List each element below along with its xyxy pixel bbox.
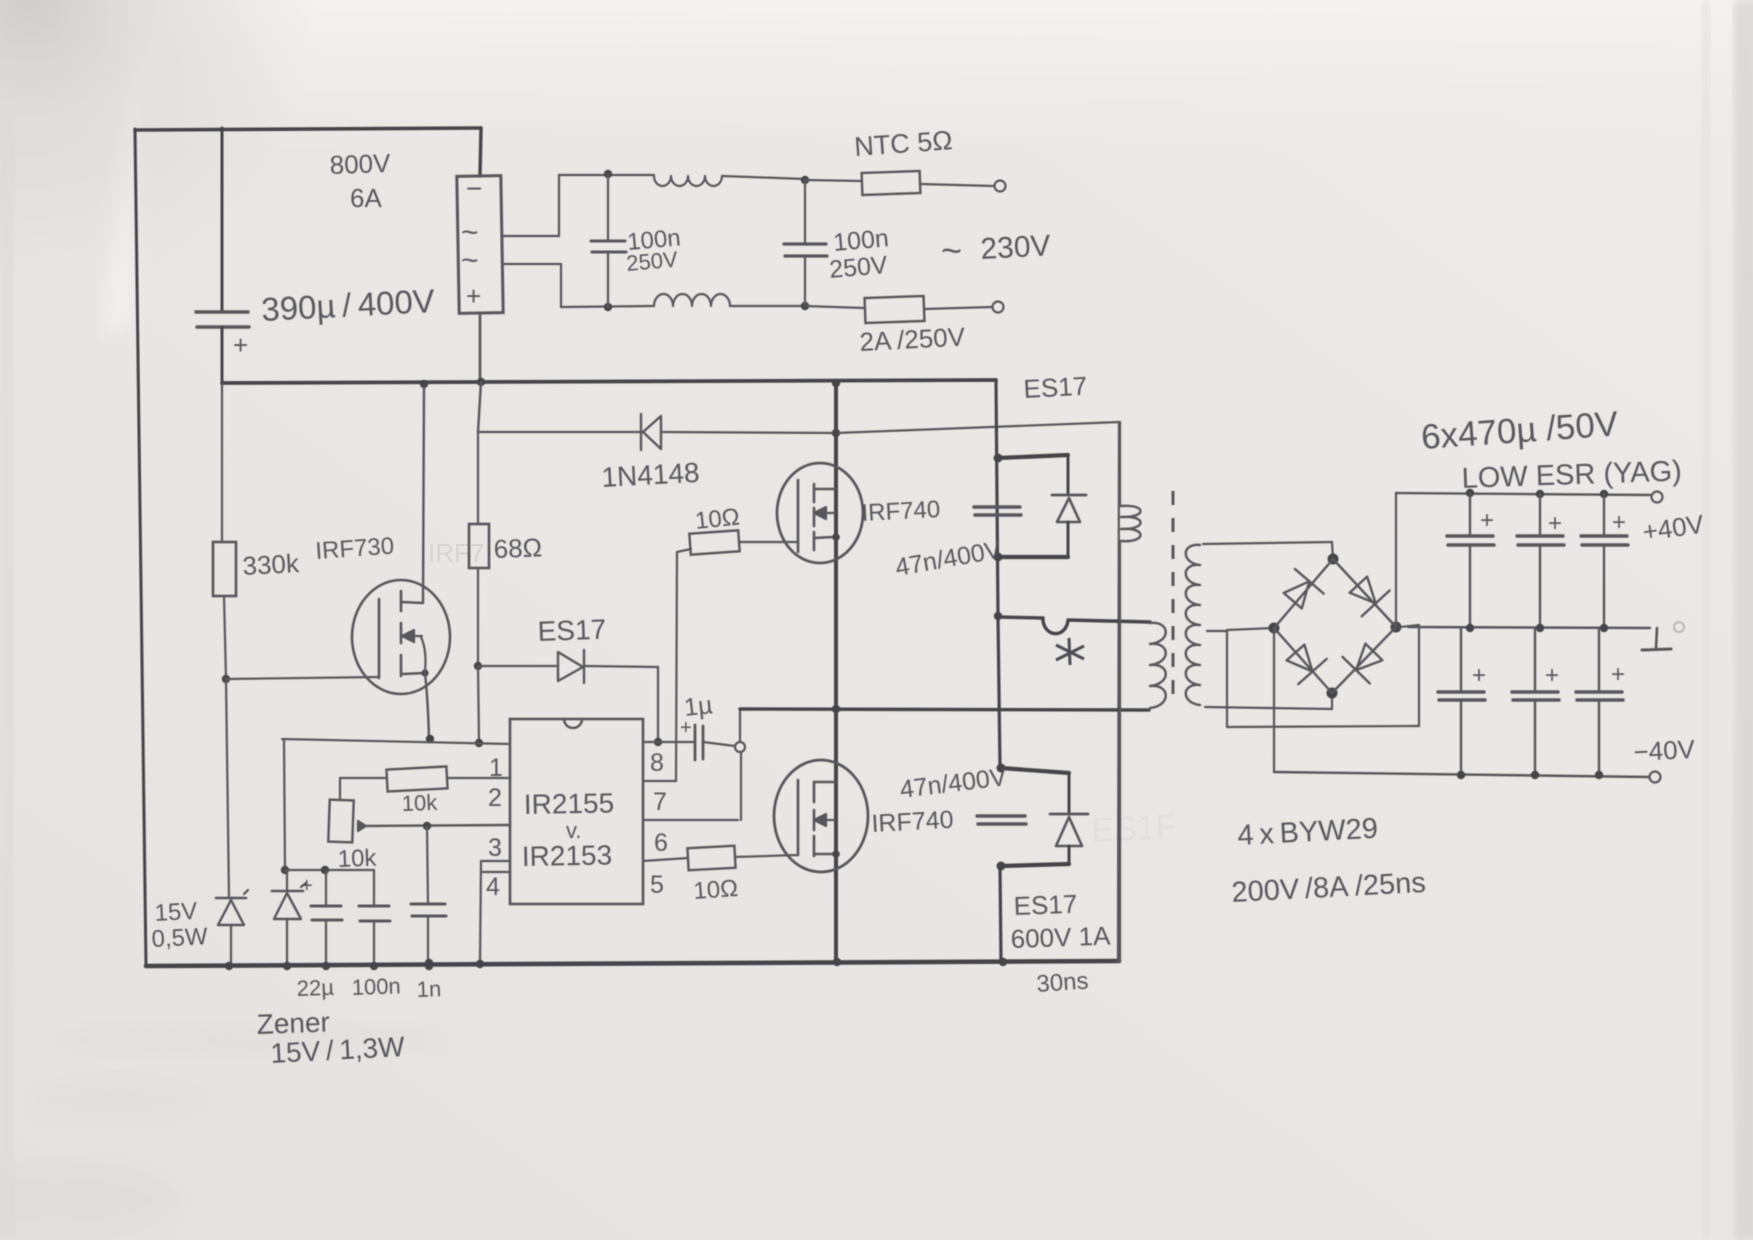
svg-text:250V: 250V <box>625 247 679 276</box>
svg-text:10Ω: 10Ω <box>694 503 741 535</box>
svg-text:+: + <box>1480 507 1494 534</box>
svg-text:6: 6 <box>654 829 668 857</box>
svg-text:0,5W: 0,5W <box>151 923 209 953</box>
svg-text:−40V: −40V <box>1633 734 1697 767</box>
svg-text:ES17: ES17 <box>1013 889 1078 921</box>
svg-text:IRF740: IRF740 <box>861 496 941 527</box>
svg-text:+: + <box>233 330 248 360</box>
svg-text:~: ~ <box>461 244 479 277</box>
svg-text:ES17: ES17 <box>537 614 607 647</box>
svg-text:4: 4 <box>486 873 500 901</box>
svg-text:3: 3 <box>488 834 502 862</box>
svg-text:600V 1A: 600V 1A <box>1010 921 1111 954</box>
svg-text:1n: 1n <box>416 976 441 1002</box>
svg-text:100n: 100n <box>351 973 401 1000</box>
svg-text:~: ~ <box>941 230 962 271</box>
svg-text:10k: 10k <box>401 790 438 816</box>
svg-text:30ns: 30ns <box>1036 967 1090 998</box>
svg-text:2A /250V: 2A /250V <box>859 321 967 357</box>
svg-text:7: 7 <box>653 788 667 816</box>
svg-text:68Ω: 68Ω <box>493 532 542 564</box>
svg-text:+: + <box>1612 509 1626 536</box>
svg-text:IR2155: IR2155 <box>524 787 615 820</box>
svg-text:15V: 15V <box>154 898 198 927</box>
svg-text:+: + <box>1611 661 1625 688</box>
svg-text:800V: 800V <box>329 148 391 180</box>
svg-text:ES1F: ES1F <box>1090 808 1177 850</box>
svg-text:230V: 230V <box>980 229 1052 266</box>
svg-text:IRF740: IRF740 <box>871 806 954 838</box>
svg-text:IRF7: IRF7 <box>428 538 484 568</box>
svg-text:250V: 250V <box>828 251 889 284</box>
svg-text:+: + <box>1545 662 1559 689</box>
svg-text:10Ω: 10Ω <box>693 875 739 905</box>
svg-text:−: − <box>466 173 482 204</box>
svg-text:8: 8 <box>650 749 664 777</box>
svg-text:ES17: ES17 <box>1023 371 1088 404</box>
svg-text:+: + <box>1548 510 1562 537</box>
svg-text:+: + <box>466 281 481 311</box>
svg-text:IRF730: IRF730 <box>315 533 395 565</box>
svg-text:1µ: 1µ <box>683 691 714 722</box>
svg-text:330k: 330k <box>242 548 301 581</box>
svg-text:6A: 6A <box>350 183 382 213</box>
svg-text:IR2153: IR2153 <box>522 839 613 872</box>
svg-text:10k: 10k <box>337 845 378 873</box>
svg-text:+: + <box>1472 662 1486 689</box>
svg-text:2: 2 <box>488 784 502 812</box>
svg-text:5: 5 <box>650 871 664 899</box>
svg-text:+: + <box>301 875 313 897</box>
svg-text:1N4148: 1N4148 <box>601 457 701 493</box>
svg-text:22µ: 22µ <box>296 975 334 1001</box>
